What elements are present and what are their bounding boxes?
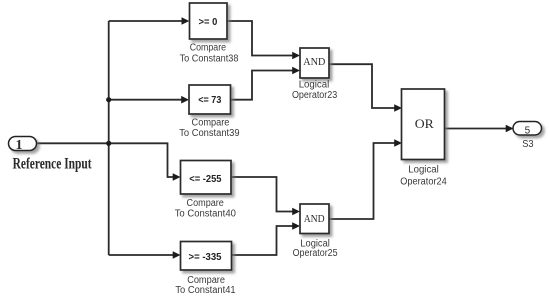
- wire OR24 out to outport: [445, 128, 507, 130]
- svg-text:Operator24: Operator24: [400, 177, 447, 188]
- wire AND23 out to OR24 in1: [329, 64, 395, 108]
- block AND Logical Operator25: [300, 204, 329, 234]
- svg-text:Compare: Compare: [192, 118, 230, 129]
- svg-text:Compare: Compare: [187, 198, 225, 209]
- svg-text:Operator23: Operator23: [292, 90, 338, 101]
- arrowhead into AND23 in1: [292, 52, 300, 60]
- wire Constant39 out to AND23 in2: [231, 71, 293, 100]
- label Compare To Constant39: [179, 118, 240, 140]
- svg-text:>= 0: >= 0: [199, 16, 218, 28]
- arrowhead into Constant39: [181, 96, 189, 104]
- wire inport to trunk junction: [37, 142, 110, 144]
- label Logical Operator24: [400, 165, 447, 188]
- arrowhead into AND25 in2: [292, 222, 300, 230]
- outport 5: [513, 122, 542, 137]
- svg-text:Logical: Logical: [299, 80, 330, 91]
- svg-text:<= -255: <= -255: [189, 173, 221, 185]
- arrowhead into Constant38: [182, 17, 190, 25]
- svg-text:1: 1: [16, 138, 23, 153]
- wire branch to Compare To Constant41: [109, 254, 173, 256]
- label Logical Operator25: [293, 238, 338, 259]
- svg-text:To Constant41: To Constant41: [175, 285, 236, 296]
- arrowhead into AND23 in2: [292, 67, 300, 75]
- arrowhead into AND25 in1: [292, 208, 300, 216]
- arrowhead into Constant41: [173, 251, 181, 259]
- block Compare To Constant41: [181, 242, 232, 271]
- arrowhead into Constant40: [173, 173, 181, 181]
- wire trunk vertical: [108, 21, 110, 255]
- arrowhead into OR24 in2: [394, 139, 402, 147]
- wire Constant38 out to AND23 in1: [227, 21, 293, 56]
- wire branch to Compare To Constant39: [109, 99, 182, 101]
- label Compare To Constant38: [180, 43, 239, 65]
- arrowhead into OR24 in1: [394, 104, 402, 112]
- block AND Logical Operator23: [300, 48, 329, 78]
- label Compare To Constant40: [175, 198, 237, 220]
- wire AND25 out to OR24 in2: [329, 143, 395, 219]
- svg-text:Compare: Compare: [190, 43, 227, 54]
- junction dot at trunk branch 39: [106, 97, 111, 102]
- inport 1: [9, 137, 37, 153]
- block Compare To Constant39: [189, 85, 231, 114]
- svg-text:To Constant40: To Constant40: [175, 209, 237, 220]
- junction dot at trunk input: [106, 141, 111, 146]
- svg-text:AND: AND: [304, 214, 325, 225]
- wire branch to Compare To Constant40: [110, 143, 174, 177]
- block Compare To Constant40: [181, 161, 232, 195]
- svg-text:Operator25: Operator25: [293, 248, 338, 259]
- svg-text:Reference Input: Reference Input: [13, 156, 92, 173]
- svg-text:<= 73: <= 73: [198, 94, 221, 106]
- wire branch to Compare To Constant38: [109, 20, 182, 22]
- svg-text:5: 5: [525, 125, 531, 136]
- svg-text:AND: AND: [303, 57, 325, 68]
- wire Constant40 out to AND25 in1: [231, 177, 293, 212]
- wire Constant41 out to AND25 in2: [232, 226, 293, 255]
- arrowhead into outport S3: [506, 125, 514, 133]
- svg-text:S3: S3: [522, 139, 534, 150]
- svg-text:To Constant39: To Constant39: [179, 128, 240, 139]
- svg-text:To Constant38: To Constant38: [180, 54, 239, 65]
- label Logical Operator23: [292, 80, 338, 101]
- label Compare To Constant41: [175, 275, 236, 296]
- block Compare To Constant38: [190, 3, 228, 39]
- block OR Logical Operator24: [402, 89, 445, 160]
- svg-text:>= -335: >= -335: [189, 251, 222, 263]
- svg-text:Logical: Logical: [408, 165, 439, 176]
- svg-text:OR: OR: [415, 117, 435, 131]
